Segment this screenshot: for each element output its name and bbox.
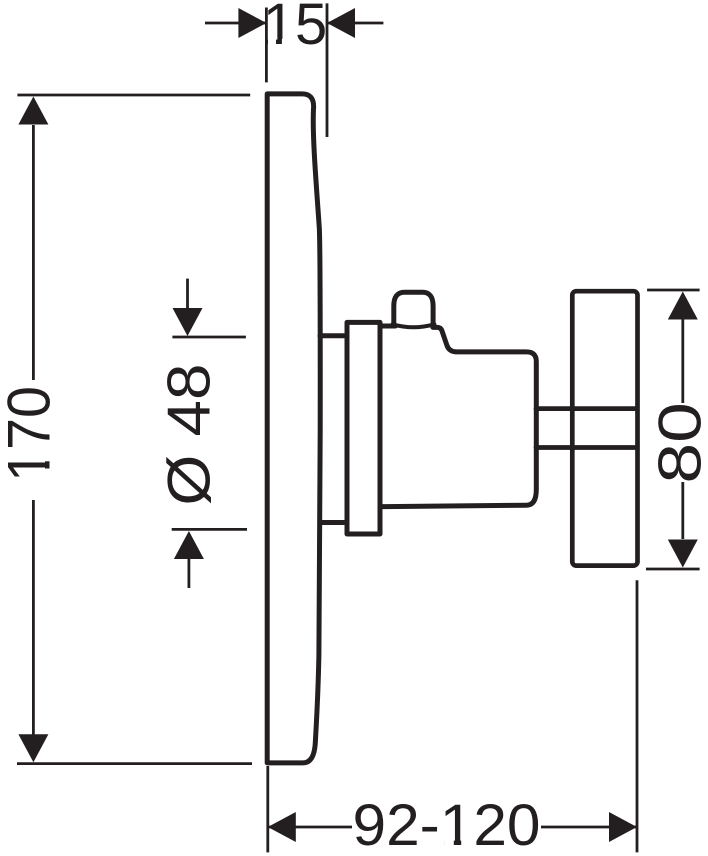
svg-text:170: 170 [0, 386, 63, 482]
svg-text:92-120: 92-120 [353, 793, 541, 856]
svg-text:Ø 48: Ø 48 [156, 364, 223, 506]
svg-text:80: 80 [647, 402, 708, 484]
svg-text:15: 15 [263, 0, 328, 57]
